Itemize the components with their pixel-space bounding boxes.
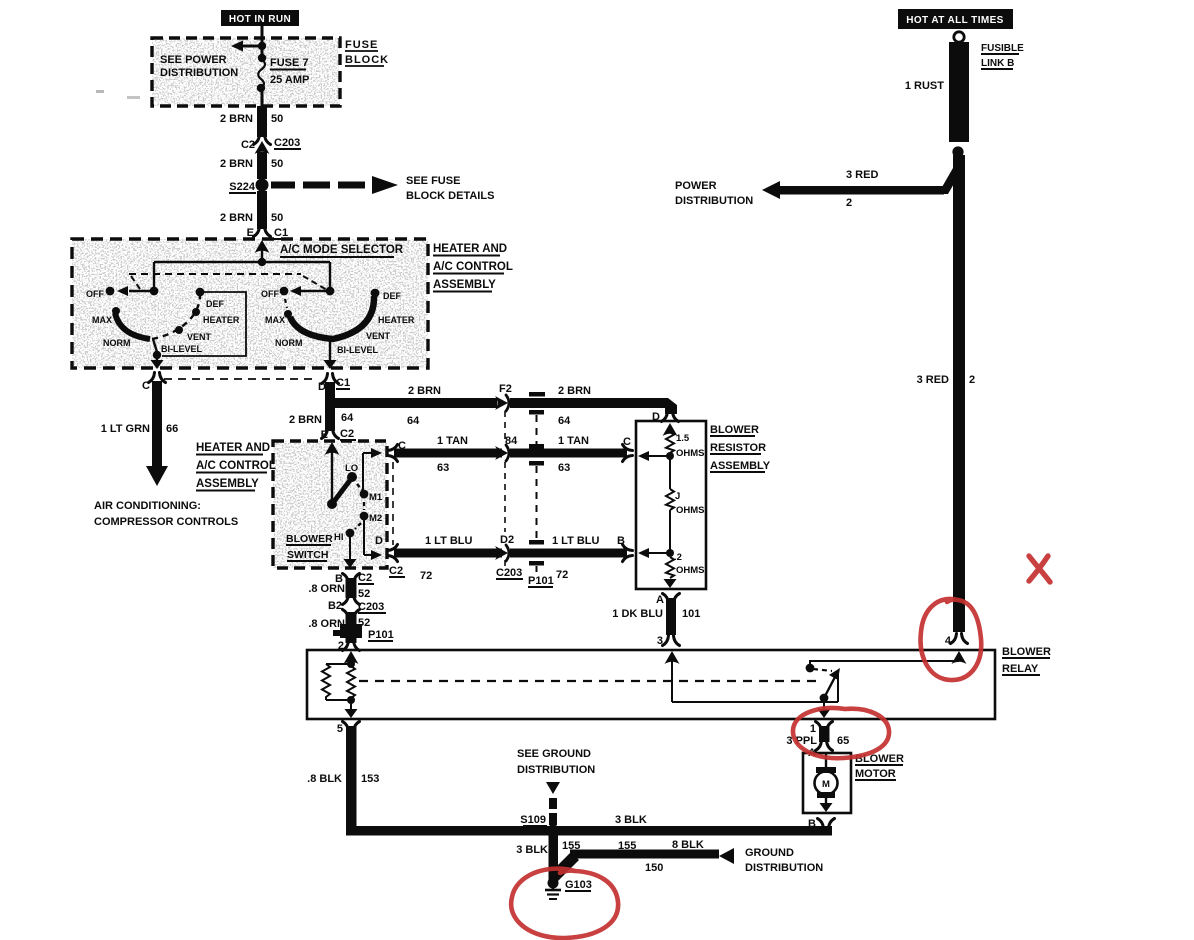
- scan speckle noise in assembly boxes: [72, 38, 428, 568]
- svg-text:2 BRN: 2 BRN: [289, 414, 322, 426]
- P101 pad connector: [340, 624, 362, 638]
- relay pin 4 connector: [951, 634, 968, 644]
- svg-text:.8 ORN: .8 ORN: [308, 618, 345, 630]
- svg-text:25 AMP: 25 AMP: [270, 74, 309, 86]
- fusible link B: [954, 32, 964, 42]
- blower relay box: [307, 650, 995, 719]
- svg-text:B2: B2: [328, 600, 342, 612]
- svg-text:64: 64: [558, 415, 571, 427]
- svg-text:HEATER AND: HEATER AND: [196, 442, 270, 454]
- HOT IN RUN label box: [221, 10, 299, 26]
- relay pin 3 internal wiring: [665, 651, 680, 664]
- resistor D input: [662, 412, 679, 422]
- svg-text:E: E: [247, 227, 254, 239]
- B output chain: C2 / C203 / P101 to relay: [343, 574, 360, 584]
- faint scan artifact marks: [96, 90, 104, 93]
- svg-text:COMPRESSOR CONTROLS: COMPRESSOR CONTROLS: [94, 516, 238, 528]
- blower resistor assembly box: [636, 421, 706, 589]
- svg-text:S224: S224: [229, 181, 256, 193]
- svg-text:HEATER AND: HEATER AND: [433, 243, 507, 255]
- svg-text:D: D: [318, 381, 326, 393]
- wire 2 BRN 50 to C1: [257, 191, 267, 229]
- svg-text:LO: LO: [345, 463, 358, 474]
- svg-text:50: 50: [271, 212, 283, 224]
- svg-text:A/C CONTROL: A/C CONTROL: [433, 261, 513, 273]
- output C of selector to A/C compressor controls: [149, 373, 166, 383]
- def wired loop (left wafer): [162, 292, 246, 356]
- red pen annotation: X mark: [1029, 556, 1050, 582]
- svg-text:BLOWER: BLOWER: [710, 424, 759, 436]
- svg-text:3 RED: 3 RED: [846, 169, 878, 181]
- svg-text:RESISTOR: RESISTOR: [710, 442, 766, 454]
- connector face C1 dashed line: [164, 378, 318, 380]
- svg-text:64: 64: [341, 412, 354, 424]
- svg-text:SEE GROUND: SEE GROUND: [517, 748, 591, 760]
- svg-text:3 RED: 3 RED: [917, 374, 949, 386]
- svg-text:BI-LEVEL: BI-LEVEL: [337, 345, 379, 355]
- svg-text:P101: P101: [368, 629, 394, 641]
- motor B to ground wire: [818, 819, 835, 829]
- svg-text:BI-LEVEL: BI-LEVEL: [161, 344, 203, 354]
- HOT AT ALL TIMES label box: [898, 9, 1013, 29]
- svg-text:HEATER: HEATER: [203, 315, 240, 325]
- svg-text:ASSEMBLY: ASSEMBLY: [433, 279, 496, 291]
- dashed wire to fuse block details: [271, 182, 295, 189]
- svg-text:C2: C2: [389, 565, 403, 577]
- svg-text:72: 72: [420, 570, 432, 582]
- left wafer switch: [129, 290, 154, 292]
- svg-text:GROUND: GROUND: [745, 847, 794, 859]
- svg-text:M2: M2: [369, 513, 382, 524]
- resistor A output to relay pin 3: [663, 594, 680, 604]
- svg-text:M1: M1: [369, 492, 383, 503]
- svg-text:C2: C2: [358, 572, 372, 584]
- svg-text:MAX: MAX: [265, 315, 285, 325]
- svg-text:HOT IN RUN: HOT IN RUN: [229, 14, 291, 25]
- svg-text:101: 101: [682, 608, 700, 620]
- svg-text:150: 150: [645, 862, 663, 874]
- svg-text:BLOCK: BLOCK: [345, 54, 389, 66]
- svg-text:FUSE 7: FUSE 7: [270, 57, 309, 69]
- svg-text:1: 1: [810, 723, 816, 735]
- ground symbol G103: [548, 878, 559, 889]
- svg-text:SWITCH: SWITCH: [287, 549, 328, 561]
- splice S109: [547, 825, 560, 838]
- svg-text:DISTRIBUTION: DISTRIBUTION: [675, 195, 753, 207]
- svg-text:C2: C2: [241, 139, 255, 151]
- svg-text:BLOWER: BLOWER: [286, 533, 333, 545]
- svg-text:M: M: [822, 779, 830, 790]
- node at branch: [258, 42, 266, 50]
- HI to B output: [349, 537, 351, 559]
- svg-text:HI: HI: [334, 532, 344, 543]
- svg-text:DEF: DEF: [383, 291, 402, 301]
- svg-text:C1: C1: [274, 227, 288, 239]
- svg-text:C203: C203: [274, 137, 300, 149]
- svg-text:C203: C203: [358, 601, 384, 613]
- svg-text:C203: C203: [496, 567, 522, 579]
- svg-text:.8 BLK: .8 BLK: [307, 773, 342, 785]
- bulkhead connector P101 boundary: [529, 392, 545, 397]
- svg-text:66: 66: [166, 423, 178, 435]
- switch blade to LO: [332, 479, 351, 504]
- svg-text:OHMS: OHMS: [676, 505, 705, 516]
- mechanical link dashed line: [129, 273, 301, 275]
- wire branch to see power distribution: [241, 45, 262, 48]
- svg-text:G103: G103: [565, 879, 592, 891]
- relay pin 1 to blower motor: [816, 722, 833, 732]
- svg-text:2: 2: [846, 197, 852, 209]
- svg-text:3 BLK: 3 BLK: [516, 844, 548, 856]
- svg-text:1 TAN: 1 TAN: [437, 435, 468, 447]
- svg-text:2: 2: [969, 374, 975, 386]
- svg-text:A/C CONTROL: A/C CONTROL: [196, 460, 276, 472]
- svg-text:1 RUST: 1 RUST: [905, 80, 944, 92]
- resistor J ohms: [666, 489, 674, 510]
- connector face C2 dash line (right of switch): [392, 462, 394, 545]
- svg-text:BLOCK DETAILS: BLOCK DETAILS: [406, 190, 494, 202]
- svg-text:BLOWER: BLOWER: [1002, 646, 1051, 658]
- svg-text:50: 50: [271, 158, 283, 170]
- svg-text:ASSEMBLY: ASSEMBLY: [710, 460, 771, 472]
- svg-text:153: 153: [361, 773, 379, 785]
- relay internal dashed link: [359, 680, 821, 682]
- svg-text:.2: .2: [674, 552, 682, 563]
- svg-text:1.5: 1.5: [676, 433, 690, 444]
- branch to power distribution: [938, 168, 963, 194]
- svg-text:DISTRIBUTION: DISTRIBUTION: [745, 862, 823, 874]
- svg-text:52: 52: [358, 588, 370, 600]
- svg-text:1 DK BLU: 1 DK BLU: [612, 608, 663, 620]
- svg-text:DEF: DEF: [206, 299, 225, 309]
- 2 BRN 64 wire from C1: down, branch right to F2, down to E/C2: [325, 382, 335, 431]
- svg-text:S109: S109: [520, 814, 546, 826]
- svg-text:3 BLK: 3 BLK: [615, 814, 647, 826]
- svg-text:4: 4: [945, 635, 952, 647]
- svg-text:2 BRN: 2 BRN: [558, 385, 591, 397]
- svg-text:P101: P101: [528, 575, 554, 587]
- svg-text:OFF: OFF: [261, 289, 279, 299]
- svg-text:OHMS: OHMS: [676, 565, 705, 576]
- svg-text:VENT: VENT: [187, 332, 212, 342]
- svg-text:F2: F2: [499, 383, 512, 395]
- svg-text:5: 5: [337, 723, 343, 735]
- svg-text:64: 64: [407, 415, 420, 427]
- svg-text:MOTOR: MOTOR: [855, 768, 896, 780]
- feed wire inside selector: [261, 247, 263, 262]
- ground G103 leg: [549, 835, 559, 880]
- wire 2 BRN 50 to S224: [257, 152, 267, 179]
- svg-text:VENT: VENT: [366, 331, 391, 341]
- svg-text:A/C MODE SELECTOR: A/C MODE SELECTOR: [280, 244, 404, 256]
- red pen annotation: circle around relay pin 1 connector: [793, 708, 889, 758]
- svg-text:FUSE: FUSE: [345, 39, 378, 51]
- svg-text:HEATER: HEATER: [378, 315, 415, 325]
- svg-text:3: 3: [657, 635, 663, 647]
- svg-text:J: J: [675, 491, 680, 502]
- right wafer switch: [329, 262, 331, 289]
- A/C mode selector assembly dashed box: [72, 239, 428, 368]
- M1 to C output: [362, 453, 364, 492]
- svg-text:1 LT GRN: 1 LT GRN: [101, 423, 150, 435]
- connector face C203 dash line through F2/84/D2: [504, 411, 506, 444]
- svg-text:D: D: [375, 535, 383, 547]
- fuse block dashed box: [152, 38, 340, 106]
- svg-text:C2: C2: [340, 428, 354, 440]
- relay switch blade: [820, 694, 829, 703]
- svg-text:D: D: [652, 411, 660, 423]
- wire from HOT IN RUN into fuse block: [261, 26, 264, 57]
- svg-text:C: C: [623, 436, 631, 448]
- connector E / C1: [254, 227, 271, 237]
- svg-text:1 TAN: 1 TAN: [558, 435, 589, 447]
- svg-text:AIR CONDITIONING:: AIR CONDITIONING:: [94, 500, 201, 512]
- svg-text:NORM: NORM: [275, 338, 303, 348]
- svg-text:SEE POWER: SEE POWER: [160, 54, 227, 66]
- svg-text:ASSEMBLY: ASSEMBLY: [196, 478, 259, 490]
- relay coil: [344, 651, 359, 664]
- svg-text:C: C: [142, 380, 150, 392]
- svg-text:A: A: [656, 594, 664, 606]
- svg-text:DISTRIBUTION: DISTRIBUTION: [517, 764, 595, 776]
- blower motor box: [803, 753, 851, 813]
- connector C2 / C203: [254, 135, 271, 145]
- svg-text:2 BRN: 2 BRN: [408, 385, 441, 397]
- svg-text:SEE FUSE: SEE FUSE: [406, 175, 460, 187]
- svg-text:1 LT BLU: 1 LT BLU: [552, 535, 600, 547]
- svg-text:1 LT BLU: 1 LT BLU: [425, 535, 473, 547]
- svg-text:LINK B: LINK B: [981, 58, 1014, 69]
- svg-text:2 BRN: 2 BRN: [220, 113, 253, 125]
- svg-text:8 BLK: 8 BLK: [672, 839, 704, 851]
- svg-text:63: 63: [558, 462, 570, 474]
- svg-text:2 BRN: 2 BRN: [220, 212, 253, 224]
- blower switch dashed box: [273, 441, 387, 568]
- svg-text:FUSIBLE: FUSIBLE: [981, 43, 1024, 54]
- svg-text:OHMS: OHMS: [676, 448, 705, 459]
- svg-text:RELAY: RELAY: [1002, 663, 1039, 675]
- svg-text:2 BRN: 2 BRN: [220, 158, 253, 170]
- svg-text:C1: C1: [336, 377, 350, 389]
- wire 2 BRN 50 fuse to C203: [257, 106, 267, 137]
- 3 RED 2 main feed wire: [953, 155, 965, 632]
- splice S224: [256, 179, 269, 192]
- red pen annotation: circle around relay pin 4: [511, 556, 1050, 938]
- resistor .2 ohms: [666, 549, 674, 557]
- output D / C1 of selector: [322, 374, 339, 384]
- svg-text:MAX: MAX: [92, 315, 112, 325]
- svg-text:OFF: OFF: [86, 289, 104, 299]
- resistor 1.5 ohms: [666, 432, 674, 453]
- relay pin 5 to ground bus: [343, 722, 360, 732]
- svg-text:DISTRIBUTION: DISTRIBUTION: [160, 67, 238, 79]
- svg-text:B: B: [617, 535, 625, 547]
- M2 to D output: [363, 518, 365, 555]
- svg-text:.8 ORN: .8 ORN: [308, 583, 345, 595]
- svg-text:155: 155: [618, 840, 636, 852]
- svg-text:POWER: POWER: [675, 180, 717, 192]
- fuse F7 element: [258, 54, 266, 62]
- red pen annotation: circle around ground G103: [511, 869, 618, 938]
- svg-text:HOT AT ALL TIMES: HOT AT ALL TIMES: [906, 15, 1004, 26]
- svg-text:50: 50: [271, 113, 283, 125]
- svg-text:65: 65: [837, 735, 849, 747]
- svg-text:NORM: NORM: [103, 338, 131, 348]
- svg-text:63: 63: [437, 462, 449, 474]
- svg-text:72: 72: [556, 569, 568, 581]
